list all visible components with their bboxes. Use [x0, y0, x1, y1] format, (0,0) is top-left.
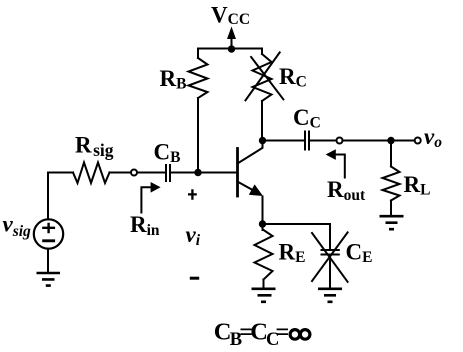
svg-text:Rsig: Rsig — [75, 133, 114, 161]
wire collector to CC — [263, 140, 305, 142]
svg-text:vsig: vsig — [3, 212, 32, 241]
svg-text:RB: RB — [160, 66, 187, 93]
svg-text:vo: vo — [424, 124, 442, 151]
wire source to ground — [47, 249, 49, 272]
source minus sign — [42, 239, 55, 242]
svg-text:RE: RE — [279, 240, 306, 267]
source plus sign — [42, 223, 55, 234]
arrow Rin arrowhead — [151, 182, 161, 193]
wire CC to output circle — [310, 140, 336, 142]
wire CE top — [329, 224, 331, 249]
node collector junction dot — [259, 137, 266, 144]
wire RE bottom — [263, 280, 265, 289]
resistor Rsig — [73, 163, 110, 184]
wire source branch up — [47, 173, 49, 220]
wire Rsig to input node — [110, 172, 131, 174]
power VCC arrowhead — [227, 27, 236, 40]
capacitor CB — [166, 165, 170, 181]
transistor Q1 emitter arrowhead — [249, 184, 263, 196]
source vsig circle — [34, 219, 63, 248]
svg-text:RC: RC — [279, 64, 307, 91]
wire RB top stub — [197, 49, 199, 59]
cross-out X over RC — [246, 52, 284, 100]
svg-text:CB: CB — [154, 140, 181, 167]
capacitor CC — [305, 132, 309, 150]
svg-text:Rout: Rout — [327, 177, 366, 204]
ground (CE) — [318, 289, 342, 302]
svg-text:vi: vi — [186, 222, 201, 249]
cross-out X over CE — [312, 232, 348, 281]
ground (source) — [37, 273, 61, 286]
wire top rail — [198, 48, 262, 50]
transistor Q1 — [236, 149, 239, 197]
svg-text:Rin: Rin — [130, 212, 160, 239]
resistor RC — [253, 54, 272, 101]
wire CE bottom — [329, 256, 331, 289]
wire RC top stub — [261, 49, 263, 55]
node emitter junction dot — [259, 220, 266, 227]
svg-text:VCC: VCC — [211, 3, 250, 29]
resistor RL — [383, 167, 400, 201]
label infinity symbol — [290, 330, 300, 340]
wire CB to base — [171, 172, 236, 174]
wire RE top stub — [262, 224, 264, 230]
wire RL top — [390, 141, 392, 167]
node input open circle — [131, 170, 137, 176]
wire output circle to RL node — [343, 140, 415, 142]
node RL junction dot — [387, 137, 394, 144]
ground (RE) — [252, 289, 276, 302]
arrow Rout arrowhead — [326, 149, 336, 160]
svg-text:=: = — [275, 319, 289, 346]
power VCC arrow — [231, 36, 233, 49]
wire source to Rsig — [48, 172, 73, 174]
svg-text:RL: RL — [404, 172, 431, 199]
wire RB bottom to base node — [197, 98, 199, 173]
node base junction dot — [194, 169, 201, 176]
wire RL bottom — [390, 201, 392, 216]
wire RC bottom to collector node — [261, 101, 263, 141]
label vi plus — [188, 189, 197, 199]
node output open circle — [337, 138, 343, 144]
node VCC junction dot — [228, 45, 235, 52]
wire emitter to CE branch — [263, 223, 331, 225]
resistor RE — [255, 230, 273, 280]
svg-text:CC: CC — [293, 105, 321, 132]
label vi minus — [190, 277, 199, 280]
capacitor CE — [322, 250, 339, 255]
node vo open circle — [415, 138, 421, 144]
wire input node to CB — [137, 172, 164, 174]
arrow Rin — [141, 187, 150, 212]
ground (RL) — [380, 216, 404, 229]
arrow Rout — [336, 155, 345, 178]
resistor RB — [189, 58, 208, 98]
svg-text:CE: CE — [346, 240, 373, 267]
